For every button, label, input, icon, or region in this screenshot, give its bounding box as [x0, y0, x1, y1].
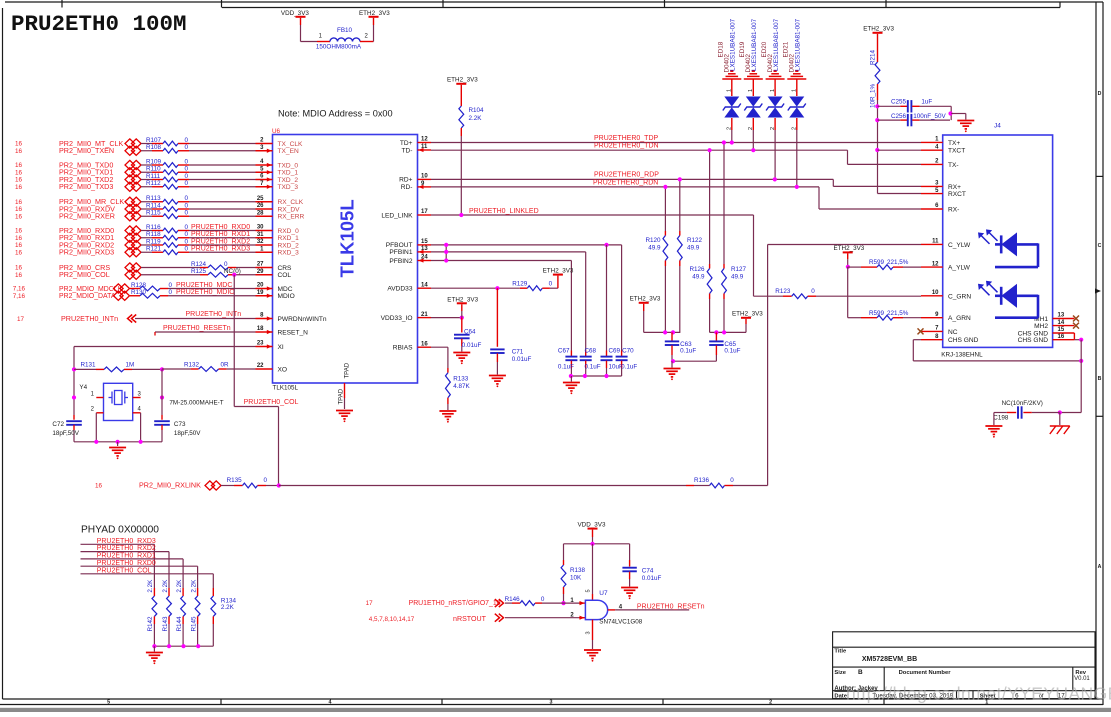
resistor R144 2.2K [182, 588, 184, 596]
ground [621, 588, 638, 596]
wire [950, 106, 952, 120]
wire LED_LINK [431, 214, 754, 216]
U6 pin 18 RESET_N [256, 331, 273, 333]
svg-text:PRU2ETH0_MDC: PRU2ETH0_MDC [176, 282, 232, 289]
capacitor C72 18pF [73, 415, 75, 420]
svg-text:TLK105L: TLK105L [273, 385, 299, 392]
svg-text:27: 27 [257, 262, 264, 268]
svg-text:TD-: TD- [402, 147, 413, 154]
wire [189, 201, 256, 203]
svg-text:PRU2ETH0_RXD1: PRU2ETH0_RXD1 [191, 231, 250, 238]
svg-text:12: 12 [932, 261, 939, 267]
svg-text:PR2_MII0_RXER: PR2_MII0_RXER [59, 212, 115, 221]
svg-text:MDC: MDC [278, 286, 293, 293]
ground [453, 353, 470, 361]
resistor R107 0 [141, 143, 152, 145]
svg-text:PRU2ETH0_RXD3: PRU2ETH0_RXD3 [191, 246, 250, 253]
wire [847, 267, 849, 318]
svg-text:31: 31 [257, 232, 264, 238]
U6 pin 10 RD+ [418, 178, 432, 180]
svg-text:C198: C198 [993, 415, 1009, 422]
svg-text:7,16: 7,16 [13, 293, 26, 300]
svg-text:0: 0 [185, 231, 189, 238]
svg-text:R136: R136 [694, 477, 710, 484]
ferrite bead FB10 [317, 41, 330, 43]
resistor R130 [130, 295, 140, 297]
svg-text:TXD_3: TXD_3 [278, 184, 299, 191]
svg-text:Document Number: Document Number [899, 670, 952, 676]
resistor R121 0 [141, 251, 152, 253]
svg-text:R135: R135 [227, 477, 243, 484]
svg-text:R125: R125 [191, 268, 207, 275]
svg-text:0.1uF: 0.1uF [558, 363, 574, 370]
junction [561, 601, 565, 605]
U6 pin 24 PFBIN2 [418, 260, 432, 262]
svg-text:XO: XO [278, 366, 288, 373]
svg-text:1: 1 [748, 89, 754, 92]
svg-text:49.9: 49.9 [731, 274, 744, 281]
svg-text:0: 0 [185, 144, 189, 151]
svg-text:PFBOUT: PFBOUT [386, 242, 413, 249]
svg-text:16: 16 [15, 228, 23, 235]
wire crystal pin4 [140, 413, 142, 442]
wire [189, 251, 256, 253]
svg-text:R113: R113 [146, 195, 161, 202]
svg-text:1: 1 [792, 89, 798, 92]
U6 pin 5 TXD_1 [256, 171, 273, 173]
wire [592, 537, 594, 544]
U6 pin 27 CRS [256, 267, 273, 269]
U6 pin 12 TD+ [418, 142, 432, 144]
svg-text:R130: R130 [131, 289, 147, 296]
svg-text:221,5%: 221,5% [887, 259, 909, 266]
svg-text:CHS GND: CHS GND [948, 337, 979, 344]
junction [714, 330, 718, 334]
svg-text:RBIAS: RBIAS [393, 345, 413, 352]
svg-text:49.9: 49.9 [692, 274, 705, 281]
svg-text:0.1uF: 0.1uF [585, 363, 601, 370]
svg-text:RXD_3: RXD_3 [278, 250, 300, 257]
wire [951, 113, 966, 115]
svg-text:R138: R138 [570, 567, 586, 574]
svg-text:PHYAD 0X00000: PHYAD 0X00000 [81, 525, 159, 536]
svg-text:C256: C256 [891, 113, 907, 120]
J4 pin 1 TX+ [921, 141, 943, 143]
svg-text:0: 0 [185, 158, 189, 165]
svg-text:0: 0 [185, 246, 189, 253]
svg-text:C68: C68 [585, 347, 597, 354]
U6 pin 11 TD- [418, 149, 432, 151]
resistor R599 221 (A_YLW) [848, 266, 861, 268]
ground [117, 442, 119, 446]
resistor R133 4.87K [447, 368, 449, 373]
svg-text:LXES1UBA81-007: LXES1UBA81-007 [730, 18, 737, 71]
J4 pin 2 TX- [921, 163, 943, 165]
resistor R126 49.9 [709, 264, 711, 269]
ground [584, 650, 601, 658]
svg-text:RXD_2: RXD_2 [278, 242, 300, 249]
svg-text:NC(10nF/2KV): NC(10nF/2KV) [1002, 400, 1043, 407]
svg-text:MH2: MH2 [1034, 323, 1048, 330]
svg-text:PR2_MII0_TXEN: PR2_MII0_TXEN [59, 146, 114, 155]
wire [189, 244, 256, 246]
wire [570, 261, 572, 351]
svg-text:PRU2ETH0_INTn: PRU2ETH0_INTn [61, 314, 118, 323]
junction [1058, 410, 1062, 414]
svg-text:R104: R104 [469, 107, 485, 114]
wire [189, 186, 256, 188]
junction [152, 644, 156, 648]
wire [1080, 340, 1082, 413]
junction [671, 359, 675, 363]
junction [663, 330, 667, 334]
wire PFBOUT [431, 244, 622, 246]
wire [373, 25, 375, 42]
svg-text:TPAD: TPAD [339, 388, 345, 404]
wire crystal pin2 [95, 413, 97, 442]
svg-text:20: 20 [257, 283, 264, 289]
wire [460, 136, 462, 215]
svg-text:PRU2ETH0_COL: PRU2ETH0_COL [244, 399, 299, 406]
svg-text:10: 10 [932, 290, 939, 296]
capacitor C256 100nF [878, 119, 901, 121]
svg-text:Size: Size [834, 670, 846, 676]
svg-text:0: 0 [185, 224, 189, 231]
U6 pin 13 PFBIN1 [418, 251, 432, 253]
svg-text:TLK105L: TLK105L [337, 199, 358, 277]
ground [570, 376, 572, 382]
svg-text:R122: R122 [687, 237, 703, 244]
U7 output pin 4 [608, 609, 615, 611]
wire PRU2ETH0_COL [232, 273, 236, 277]
svg-text:LXES1UBA81-007: LXES1UBA81-007 [795, 18, 802, 71]
svg-text:Y4: Y4 [79, 384, 87, 391]
wire [197, 624, 199, 646]
U6 pin 23 XI [256, 346, 273, 348]
svg-text:0: 0 [169, 282, 173, 289]
wire [731, 130, 733, 143]
svg-text:C72: C72 [52, 421, 64, 428]
wire [182, 624, 184, 646]
J4 pin 8 CHS GND [921, 339, 943, 341]
svg-text:C: C [1098, 243, 1102, 249]
wire [847, 259, 849, 267]
power flag ETH2_3V3 [557, 276, 559, 289]
resistor R120 49.9 [664, 231, 666, 236]
svg-text:PRU2ETH0 100M: PRU2ETH0 100M [11, 11, 187, 37]
resistor R109 0 [141, 164, 152, 166]
svg-text:TXCT: TXCT [948, 148, 965, 155]
svg-text:0: 0 [185, 173, 189, 180]
svg-text:28: 28 [257, 210, 264, 216]
wire [81, 565, 198, 567]
svg-text:R120: R120 [645, 237, 661, 244]
svg-text:nRSTOUT: nRSTOUT [453, 615, 487, 623]
svg-text:11: 11 [932, 239, 939, 245]
J4 pin 4 TXCT [921, 149, 943, 151]
capacitor C71 0.01uF [496, 288, 498, 347]
svg-text:7,16: 7,16 [13, 286, 26, 293]
wire [153, 624, 155, 646]
U7 ground pin 3 [592, 620, 594, 640]
svg-text:C64: C64 [464, 328, 476, 335]
wire [550, 287, 558, 289]
junction [160, 367, 164, 371]
svg-text:R119: R119 [146, 238, 161, 245]
svg-text:RD+: RD+ [399, 177, 413, 184]
svg-text:R126: R126 [689, 266, 705, 273]
wire [236, 274, 256, 276]
resistor R108 0 [141, 150, 152, 152]
svg-text:http://blog.csdn.net/YYEYUANGE: http://blog.csdn.net/YYEYUANGEN [846, 684, 1111, 704]
svg-text:PR2_MDIO_MDCLK: PR2_MDIO_MDCLK [59, 286, 123, 293]
ground [489, 376, 506, 384]
svg-text:LXES1UBA81-007: LXES1UBA81-007 [751, 18, 758, 71]
svg-text:RX_CLK: RX_CLK [278, 199, 304, 206]
resistor R142 2.2K [153, 588, 155, 596]
wire [710, 331, 746, 333]
svg-text:22: 22 [257, 363, 264, 369]
svg-text:ETH2_3V3: ETH2_3V3 [447, 296, 478, 303]
wire [81, 558, 184, 560]
capacitor C69 10uF [606, 351, 608, 357]
J4 pin 9 A_GRN [921, 317, 943, 319]
svg-text:15: 15 [421, 239, 428, 245]
resistor R115 0 [141, 215, 152, 217]
svg-text:1M: 1M [126, 362, 135, 369]
wire crystal ground rail [74, 441, 162, 443]
wire [563, 594, 565, 603]
wire [168, 624, 170, 646]
svg-text:U6: U6 [272, 128, 281, 135]
U6 pin 32 RXD_2 [256, 244, 273, 246]
wire [643, 311, 645, 332]
svg-text:XI: XI [278, 344, 284, 351]
svg-text:1: 1 [727, 89, 733, 92]
svg-text:R123: R123 [775, 288, 791, 295]
svg-text:R131: R131 [81, 362, 97, 369]
svg-text:0: 0 [185, 195, 189, 202]
svg-text:R132: R132 [184, 362, 200, 369]
wire [189, 215, 256, 217]
junction [495, 286, 499, 290]
capacitor C63 0.1uF [671, 332, 673, 341]
svg-text:14: 14 [421, 282, 428, 288]
svg-text:0: 0 [811, 288, 815, 295]
wire XI net vertical [73, 347, 75, 416]
junction [459, 213, 463, 217]
svg-text:5: 5 [107, 700, 110, 706]
svg-text:R144: R144 [176, 616, 183, 632]
svg-text:R112: R112 [146, 180, 161, 187]
wire R127 to TDP [723, 143, 725, 265]
wire [81, 573, 214, 575]
wire [796, 130, 798, 187]
wire [877, 100, 879, 194]
svg-text:150OHM800mA: 150OHM800mA [316, 44, 362, 51]
U6 pin 1 RXD_3 [256, 251, 273, 253]
wire strap ground rail [154, 645, 213, 647]
svg-text:PR2_MII0_RXLINK: PR2_MII0_RXLINK [139, 481, 201, 490]
svg-text:3: 3 [550, 700, 553, 706]
svg-text:10K: 10K [570, 575, 582, 582]
svg-text:RXCT: RXCT [948, 191, 966, 198]
wire R122 to RDP [679, 179, 681, 231]
J4 pin 7 NC [921, 330, 943, 332]
U6 pin 22 XO [256, 368, 273, 370]
svg-text:30: 30 [257, 225, 264, 231]
wire XI [74, 346, 256, 348]
wire CHS GND [913, 339, 921, 341]
wire [752, 130, 754, 150]
svg-text:16: 16 [15, 265, 23, 272]
svg-text:32: 32 [257, 239, 264, 245]
wire [168, 288, 256, 290]
capacitor C67 0.1uF [570, 351, 572, 357]
wire [189, 179, 256, 181]
junction [94, 440, 98, 444]
svg-text:0: 0 [185, 166, 189, 173]
svg-text:17: 17 [421, 209, 428, 215]
svg-text:C74: C74 [642, 567, 654, 574]
J4 pin 6 RX- [921, 208, 943, 210]
svg-text:V0.01: V0.01 [1074, 676, 1090, 682]
wire [189, 171, 256, 173]
svg-text:C_YLW: C_YLW [948, 242, 971, 249]
svg-text:PRU2ETHER0_RDN: PRU2ETHER0_RDN [593, 180, 658, 187]
resistor R145 2.2K [197, 588, 199, 596]
svg-text:C_GRN: C_GRN [948, 293, 971, 300]
wire [236, 267, 256, 269]
svg-text:NC: NC [948, 329, 958, 336]
svg-text:3: 3 [586, 631, 592, 634]
svg-text:25: 25 [257, 196, 264, 202]
J4 pin 12 A_YLW [921, 266, 943, 268]
resistor R131 1M [74, 368, 96, 370]
svg-text:1uF: 1uF [921, 99, 932, 106]
svg-text:CRS: CRS [278, 265, 293, 272]
resistor R124 [141, 267, 200, 269]
svg-text:2.2K: 2.2K [176, 579, 183, 593]
svg-text:R116: R116 [146, 224, 161, 231]
earth ground (up) [744, 71, 763, 79]
LED green inside J4 [995, 285, 1038, 318]
junction [72, 367, 76, 371]
svg-text:D: D [1098, 91, 1102, 97]
svg-text:26: 26 [257, 203, 264, 209]
wire [505, 617, 579, 619]
svg-text:RX_DV: RX_DV [278, 206, 301, 213]
wire [300, 25, 302, 42]
svg-text:0: 0 [169, 289, 173, 296]
svg-text:C69: C69 [609, 347, 621, 354]
svg-text:0.01uF: 0.01uF [642, 575, 662, 582]
svg-text:0: 0 [185, 210, 189, 217]
earth ground (up) [787, 71, 806, 79]
svg-text:R109: R109 [146, 158, 162, 165]
svg-text:TX+: TX+ [948, 140, 960, 147]
wire PFBIN1 [431, 251, 586, 253]
U6 pin 25 RX_CLK [256, 201, 273, 203]
svg-text:16: 16 [15, 199, 23, 206]
svg-text:0.01uF: 0.01uF [512, 356, 532, 363]
svg-text:12: 12 [421, 137, 428, 143]
svg-text:Rev: Rev [1075, 670, 1086, 676]
svg-text:10: 10 [421, 174, 428, 180]
resistor R123 0 [783, 295, 792, 297]
wire RBIAS [431, 346, 448, 348]
svg-text:U7: U7 [599, 590, 608, 597]
svg-text:PR2_MII0_RXD3: PR2_MII0_RXD3 [59, 248, 114, 257]
svg-text:A: A [1098, 564, 1102, 570]
svg-text:ETH2_3V3: ETH2_3V3 [359, 10, 390, 17]
resistor R138 10K [563, 544, 565, 560]
svg-text:C70: C70 [622, 347, 634, 354]
J4 pin 10 C_GRN [921, 295, 943, 297]
svg-text:2: 2 [769, 700, 772, 706]
ground [336, 411, 353, 419]
junction [277, 483, 281, 487]
svg-text:AVDD33: AVDD33 [387, 286, 412, 293]
wire [709, 299, 711, 332]
svg-text:49.9: 49.9 [687, 245, 700, 252]
no-connect X pin 14 [1073, 323, 1079, 329]
svg-text:PRU2ETH0_LINKLED: PRU2ETH0_LINKLED [469, 208, 539, 215]
svg-text:XM5728EVM_BB: XM5728EVM_BB [862, 656, 917, 663]
svg-text:16: 16 [1058, 334, 1065, 340]
svg-text:0.01uF: 0.01uF [462, 342, 482, 349]
svg-text:2.2K: 2.2K [162, 579, 169, 593]
IC U6 TLK105L body [273, 135, 418, 384]
svg-text:R124: R124 [191, 261, 207, 268]
svg-text:TX_CLK: TX_CLK [278, 141, 304, 148]
svg-text:0: 0 [730, 477, 734, 484]
svg-text:PRU2ETH0_INTn: PRU2ETH0_INTn [186, 311, 242, 318]
svg-text:PRU2ETH0_RESETn: PRU2ETH0_RESETn [637, 603, 705, 610]
junction [846, 265, 850, 269]
svg-text:J4: J4 [994, 123, 1001, 130]
U6 pin 21 VDD33_IO [418, 317, 432, 319]
svg-text:0: 0 [264, 477, 268, 484]
wire [774, 130, 776, 179]
svg-text:14: 14 [1058, 320, 1065, 326]
svg-text:MDIO: MDIO [278, 293, 295, 300]
resistor R143 2.2K [168, 588, 170, 596]
ground [993, 413, 995, 426]
svg-text:R115: R115 [146, 210, 161, 217]
wire XO branch [161, 369, 163, 415]
svg-text:221,5%: 221,5% [887, 310, 909, 317]
power flag ETH2_3V3 [373, 18, 375, 25]
svg-text:CHS GND: CHS GND [1018, 337, 1049, 344]
svg-text:TXD_2: TXD_2 [278, 177, 299, 184]
earth ground (up) [766, 71, 785, 79]
svg-text:R143: R143 [162, 616, 169, 632]
svg-text:17: 17 [17, 316, 25, 323]
svg-text:21: 21 [421, 312, 428, 318]
wire [189, 237, 256, 239]
svg-text:0.1uF: 0.1uF [724, 348, 740, 355]
svg-text:4: 4 [329, 700, 332, 706]
resistor R118 0 [141, 237, 152, 239]
earth ground (up) [722, 71, 741, 79]
svg-text:B: B [1098, 376, 1102, 382]
AND gate U7 SN74LVC1G08 [585, 600, 607, 619]
title block [833, 632, 1095, 699]
svg-text:LXES1UBA81-007: LXES1UBA81-007 [773, 18, 780, 71]
svg-text:17: 17 [366, 600, 374, 607]
svg-text:0: 0 [541, 596, 545, 603]
